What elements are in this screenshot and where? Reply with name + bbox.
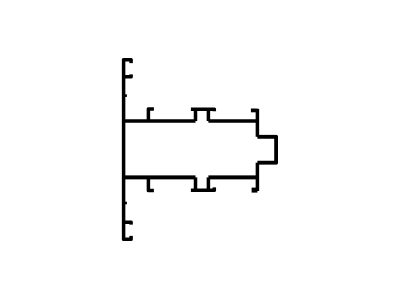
bottom wall left segment <box>124 175 196 179</box>
bottom-left hook stub <box>148 177 154 190</box>
right wall upper flange <box>251 109 258 113</box>
right tongue outline <box>257 137 276 163</box>
top screw-channel cap with right lip <box>191 109 214 111</box>
top C-channel lower lip <box>124 74 132 76</box>
right wall lower bar <box>256 163 260 191</box>
top-left hook stub <box>148 109 154 121</box>
top wall right segment <box>208 119 257 123</box>
bottom wall right segment <box>208 175 257 179</box>
right wall lower flange <box>252 188 258 193</box>
top screw-channel right leg <box>207 109 211 121</box>
bottom screw-channel left leg <box>194 177 198 190</box>
bottom screw-channel right leg <box>207 177 211 190</box>
top wall left segment <box>124 119 196 123</box>
lower locating nub on fin bar <box>124 202 127 205</box>
bottom C-channel upper lip <box>124 222 132 224</box>
bottom screw-channel cap with right lip <box>191 187 214 190</box>
right wall upper bar <box>256 109 260 137</box>
left fin bar with top and bottom C-channels <box>124 60 132 239</box>
upper locating nub on fin bar <box>124 94 127 97</box>
top screw-channel left leg <box>194 109 198 121</box>
